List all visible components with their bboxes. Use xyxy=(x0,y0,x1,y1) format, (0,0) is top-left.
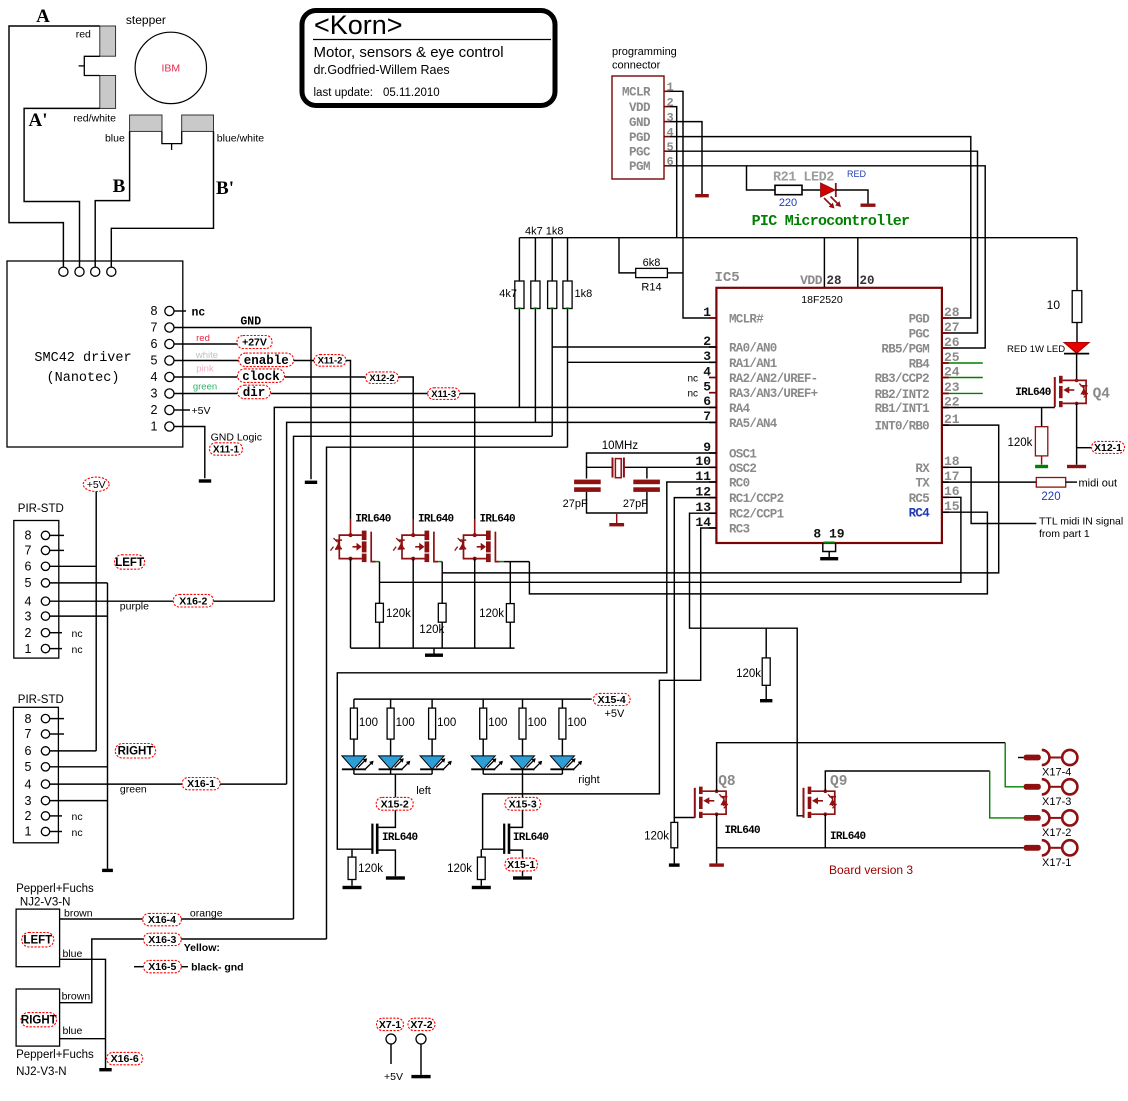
svg-text:from part 1: from part 1 xyxy=(1039,528,1090,540)
LED D3 xyxy=(420,739,452,774)
wire green stub xyxy=(942,392,949,394)
svg-text:05.11.2010: 05.11.2010 xyxy=(383,87,440,99)
svg-text:B': B' xyxy=(216,178,234,199)
resistor R 120k Q5 gate xyxy=(376,603,384,622)
svg-text:PGC: PGC xyxy=(629,146,651,160)
wire left group to X15-2 xyxy=(394,774,396,797)
wire pir1 pin8 stub xyxy=(50,534,64,536)
ground xyxy=(760,699,772,702)
svg-text:220: 220 xyxy=(1041,491,1060,503)
svg-text:RIGHT: RIGHT xyxy=(21,1015,57,1027)
svg-text:dr.Godfried-Willem Raes: dr.Godfried-Willem Raes xyxy=(314,63,450,77)
resistor pullup 4 (1k8) xyxy=(563,281,572,309)
wire RIGHT brown to X16-3 xyxy=(60,939,144,1003)
svg-text:RED: RED xyxy=(847,169,867,179)
wire coil A' to driver (phase A') xyxy=(24,108,100,267)
svg-text:nc: nc xyxy=(687,389,698,400)
svg-text:RIGHT: RIGHT xyxy=(118,746,154,758)
wire LEFT blue to ground xyxy=(60,959,106,1068)
svg-text:PGC: PGC xyxy=(909,328,931,342)
wire Q8 drain to X17-3 xyxy=(717,743,1006,792)
wire pir1 pin5 to gnd rail xyxy=(50,582,108,584)
svg-text:green: green xyxy=(120,784,147,796)
wire X16-2 purple net to RA4 xyxy=(274,407,716,601)
sensor RIGHT box xyxy=(16,989,60,1046)
svg-text:VDD: VDD xyxy=(629,101,651,115)
wire green stub xyxy=(942,377,949,379)
wire X15-2 to Q10 drain xyxy=(378,810,396,827)
title block xyxy=(302,10,555,106)
wire X15-3 to Q11 drain xyxy=(510,810,523,827)
svg-text:X16-3: X16-3 xyxy=(148,934,176,946)
svg-text:7: 7 xyxy=(151,321,158,335)
svg-text:27pF: 27pF xyxy=(563,498,588,510)
svg-text:20: 20 xyxy=(860,274,875,288)
svg-text:nc: nc xyxy=(72,827,83,839)
svg-text:+5V: +5V xyxy=(384,1071,403,1083)
resistor R 120k Q9 gate xyxy=(762,658,770,685)
svg-text:RED 1W LED: RED 1W LED xyxy=(1007,344,1065,355)
wire Q6 gate down xyxy=(441,562,443,573)
resistor R 120k Q8 gate xyxy=(671,822,678,847)
wire Q11 pulldown to ground xyxy=(480,880,482,886)
svg-text:IRL640: IRL640 xyxy=(479,514,515,526)
wire RC1 pin12 to Q8 gate xyxy=(674,498,716,818)
svg-text:X17-4: X17-4 xyxy=(1042,767,1071,779)
wire pir2 pin6 to +5V xyxy=(50,750,96,752)
wire pullup 3 stub xyxy=(551,238,553,281)
wire rail to resistor xyxy=(390,699,392,708)
wire left LED group bottom rail xyxy=(354,773,432,775)
svg-text:SMC42 driver: SMC42 driver xyxy=(34,351,131,366)
LED D1 xyxy=(342,739,374,774)
svg-text:IRL640: IRL640 xyxy=(830,831,866,843)
svg-text:1k8: 1k8 xyxy=(575,288,593,300)
svg-text:2: 2 xyxy=(667,96,674,110)
connector label X7-2 xyxy=(408,1018,435,1031)
svg-text:RC1/CCP2: RC1/CCP2 xyxy=(729,492,784,506)
svg-text:IRL640: IRL640 xyxy=(1015,387,1051,399)
svg-text:100: 100 xyxy=(528,717,547,729)
svg-text:4: 4 xyxy=(703,364,711,379)
svg-text:enable: enable xyxy=(244,354,289,368)
svg-text:last update:: last update: xyxy=(314,87,373,99)
LED D4 xyxy=(471,739,503,774)
resistor pullup 2 () xyxy=(531,281,540,309)
ground xyxy=(709,863,724,866)
transistor Q7 IRL640 xyxy=(455,519,504,562)
wire Q10 gate pulldown tap xyxy=(351,849,353,857)
driver motor pins xyxy=(59,267,116,276)
wire Q6 gate resistor to rail xyxy=(441,622,443,648)
svg-text:RB2/INT2: RB2/INT2 xyxy=(875,388,930,402)
wire cap2 tap xyxy=(646,467,648,478)
connector label X16-6 xyxy=(107,1052,143,1065)
resistor R21 220 xyxy=(775,185,802,194)
svg-text:red: red xyxy=(196,333,210,344)
svg-text:orange: orange xyxy=(190,908,223,920)
svg-text:3: 3 xyxy=(151,387,158,401)
SMC42 driver box xyxy=(7,261,183,447)
resistor R 220 midi xyxy=(1036,478,1065,488)
svg-text:IRL640: IRL640 xyxy=(382,832,418,844)
+5V rail xyxy=(519,237,1077,239)
programming connector J1 xyxy=(612,76,674,179)
svg-text:8: 8 xyxy=(25,712,32,726)
svg-text:1: 1 xyxy=(667,81,674,95)
resistor pullup 3 () xyxy=(548,281,557,309)
svg-text:OSC1: OSC1 xyxy=(729,448,756,462)
ground xyxy=(1035,465,1048,468)
wire VDD pin28top xyxy=(823,238,825,288)
wire pir1 pin2 stub xyxy=(50,632,62,634)
wire RC2 pin13 to Q9 gate xyxy=(690,513,804,816)
svg-text:IRL640: IRL640 xyxy=(418,514,454,526)
wire R21 to LED2 xyxy=(802,189,821,191)
wire Q9 source down xyxy=(824,814,826,848)
wire R10 to LED xyxy=(1076,323,1078,343)
wire driver GND pin7 to ground xyxy=(174,328,311,480)
wire pin2 +5V stub xyxy=(174,409,190,411)
svg-text:GND: GND xyxy=(240,316,261,329)
wire X16-1 label to net xyxy=(220,783,287,785)
capacitor C2 27pF xyxy=(633,480,660,492)
svg-text:10MHz: 10MHz xyxy=(602,440,639,452)
ground xyxy=(305,481,317,484)
wire TX pin17 to R220 xyxy=(942,481,1036,483)
wire caps to ground rail xyxy=(587,492,647,513)
wire Q6 gate pulldown xyxy=(441,573,443,603)
svg-text:LEFT: LEFT xyxy=(23,935,52,947)
sensor LEFT box xyxy=(16,909,60,967)
svg-text:X17-1: X17-1 xyxy=(1042,857,1071,869)
wire enable to X11-2 xyxy=(294,360,314,362)
resistor R 120k Q11 gate xyxy=(477,857,485,879)
wire Q7 gate jog xyxy=(504,561,530,563)
wire RX pin18 from TTL midi in xyxy=(942,467,1036,523)
capacitor C1 27pF xyxy=(574,480,601,492)
svg-text:R14: R14 xyxy=(641,282,661,294)
svg-text:4k7: 4k7 xyxy=(499,288,517,300)
svg-text:blue: blue xyxy=(63,1025,83,1037)
wire right group to X15-3 xyxy=(522,774,524,797)
wire rail to resistor xyxy=(522,699,524,708)
svg-text:TX: TX xyxy=(915,477,930,491)
svg-text:4k7 1k8: 4k7 1k8 xyxy=(525,226,564,238)
connector label X16-5 xyxy=(144,960,182,973)
svg-text:28: 28 xyxy=(944,305,960,320)
transistor Q6 IRL640 xyxy=(393,519,442,562)
connector label +5V xyxy=(83,477,109,491)
svg-text:4: 4 xyxy=(667,126,674,140)
wire X7-1 to +5V xyxy=(390,1044,392,1064)
wire RA0 pin2 xyxy=(552,346,716,348)
svg-text:blue/white: blue/white xyxy=(217,133,264,145)
wire Q8 source down xyxy=(716,814,718,863)
connector X7-1 pin xyxy=(386,1034,396,1044)
svg-text:X15-1: X15-1 xyxy=(507,859,535,871)
svg-text:brown: brown xyxy=(64,908,93,920)
coil B right winding xyxy=(182,115,214,131)
svg-text:6: 6 xyxy=(25,560,32,574)
svg-text:red/white: red/white xyxy=(73,113,116,125)
svg-text:X15-3: X15-3 xyxy=(509,798,537,810)
svg-text:120k: 120k xyxy=(479,608,504,620)
wire rail to resistor xyxy=(431,699,433,708)
svg-text:6: 6 xyxy=(151,337,158,351)
wire Q9 pulldown to ground xyxy=(765,685,767,699)
svg-text:PGD: PGD xyxy=(629,131,651,145)
svg-text:X11-1: X11-1 xyxy=(213,444,240,455)
svg-text:clock: clock xyxy=(242,370,280,384)
ground xyxy=(425,654,443,657)
coil A upper winding xyxy=(100,26,116,56)
svg-text:nc: nc xyxy=(72,628,83,640)
connector label X15-1 xyxy=(505,858,538,871)
svg-text:NJ2-V3-N: NJ2-V3-N xyxy=(20,897,70,909)
svg-text:Q4: Q4 xyxy=(1093,387,1111,403)
PIR RIGHT pins xyxy=(25,712,50,839)
connector X17-3 xyxy=(1024,779,1078,808)
svg-text:5: 5 xyxy=(25,576,32,590)
svg-text:120k: 120k xyxy=(419,624,444,636)
wire green to X17-3 xyxy=(1005,743,1023,787)
svg-text:<Korn>: <Korn> xyxy=(314,10,403,40)
wire Q10 source to ground xyxy=(378,850,396,876)
wire MOSFET source ground rail xyxy=(351,647,515,649)
svg-text:IRL640: IRL640 xyxy=(355,514,391,526)
svg-text:Motor, sensors & eye control: Motor, sensors & eye control xyxy=(314,44,504,61)
svg-text:LEFT: LEFT xyxy=(115,557,144,569)
wire Q5 source to ground rail xyxy=(350,559,352,649)
svg-text:RA1/AN1: RA1/AN1 xyxy=(729,357,777,371)
svg-text:white: white xyxy=(195,350,218,361)
svg-text:RA3/AN3/UREF+: RA3/AN3/UREF+ xyxy=(729,387,818,401)
svg-text:R21 LED2: R21 LED2 xyxy=(773,171,834,186)
wire +5V LED rail xyxy=(354,698,592,700)
LED2 xyxy=(821,183,841,209)
resistor R14 6k8 xyxy=(636,268,668,277)
svg-text:X11-3: X11-3 xyxy=(431,389,456,400)
svg-text:220: 220 xyxy=(779,197,797,209)
wire R14 branch xyxy=(619,238,636,273)
svg-text:6: 6 xyxy=(25,744,32,758)
PIC right pin stubs and labels xyxy=(875,305,960,521)
coil A lower winding xyxy=(100,76,116,109)
svg-text:GND Logic: GND Logic xyxy=(211,432,262,444)
ground xyxy=(99,1068,111,1071)
wire PIC ground pins 8,19 xyxy=(824,542,835,544)
wire Q7 feedback to RC4 pin15 xyxy=(529,512,987,594)
svg-text:+5V: +5V xyxy=(87,479,106,491)
svg-text:RA5/AN4: RA5/AN4 xyxy=(729,417,778,431)
svg-text:VDD: VDD xyxy=(800,273,823,288)
svg-text:3: 3 xyxy=(667,111,674,125)
wire pulldown to green ground xyxy=(1041,456,1043,465)
svg-text:GND: GND xyxy=(629,116,651,130)
transistor Q8 IRL640 xyxy=(695,787,728,818)
wire pin6 to +27V xyxy=(174,343,237,345)
wire crystal left xyxy=(587,466,613,468)
resistor R 100 LED3 xyxy=(429,708,436,739)
ground xyxy=(343,886,362,889)
wire pin8 nc stub xyxy=(174,310,186,312)
svg-text:RA2/AN2/UREF-: RA2/AN2/UREF- xyxy=(729,372,817,386)
svg-text:INT0/RB0: INT0/RB0 xyxy=(875,420,930,434)
connector label X15-2 xyxy=(376,797,413,810)
connector label X16-4 xyxy=(143,913,182,926)
svg-text:RC5: RC5 xyxy=(909,492,930,506)
connector X17-2 xyxy=(1024,810,1078,839)
svg-text:120k: 120k xyxy=(358,863,383,875)
coil A center tap notch xyxy=(84,56,100,75)
svg-text:nc: nc xyxy=(687,374,698,385)
svg-text:brown: brown xyxy=(62,991,91,1003)
svg-text:left: left xyxy=(416,785,431,797)
wire RC0 pin11 to left-LED MOSFET gate xyxy=(337,482,716,849)
wire pir1 pin1 stub xyxy=(50,648,62,650)
svg-text:Yellow:: Yellow: xyxy=(184,942,220,954)
wire X17-1 line xyxy=(717,847,1024,849)
svg-text:blue: blue xyxy=(105,133,125,145)
wire green stub xyxy=(942,362,949,364)
wire X11-3 to Q7 gate xyxy=(460,394,475,520)
connector label X11-3 xyxy=(428,388,460,400)
wire pullup 1 stub xyxy=(518,238,520,281)
svg-text:120k: 120k xyxy=(736,668,761,680)
svg-text:8: 8 xyxy=(25,529,32,543)
svg-text:1: 1 xyxy=(25,825,32,839)
wire +5V down to PIR pin6 xyxy=(95,492,97,751)
svg-text:X7-1: X7-1 xyxy=(379,1019,401,1031)
resistor R 100 LED2 xyxy=(387,708,394,739)
wire pir1 pin6 to +5V xyxy=(50,565,96,567)
connector label enable xyxy=(239,353,294,368)
svg-text:6: 6 xyxy=(667,155,674,169)
resistor R 120k Q6 gate xyxy=(438,603,446,622)
wire pir2 pin5 to gnd xyxy=(50,766,108,768)
svg-text:4: 4 xyxy=(25,594,32,608)
connector label X7-1 xyxy=(377,1018,404,1031)
wire X11-2 to Q5 gate xyxy=(346,361,351,520)
connector label LEFT xyxy=(115,555,145,569)
svg-text:28: 28 xyxy=(827,274,842,288)
resistor R 100 LED4 xyxy=(480,708,487,739)
svg-text:IC5: IC5 xyxy=(715,270,740,286)
wire +5V rail to R 10 xyxy=(1076,238,1078,291)
svg-text:5: 5 xyxy=(151,354,158,368)
wire Q5 gate resistor to rail xyxy=(379,622,381,648)
wire Q7 gate resistor to rail xyxy=(509,622,511,648)
svg-text:+27V: +27V xyxy=(242,337,267,349)
svg-text:PIR-STD: PIR-STD xyxy=(18,503,64,515)
wire crystal ground stem xyxy=(616,513,618,523)
svg-text:100: 100 xyxy=(396,717,415,729)
svg-text:RC0: RC0 xyxy=(729,477,750,491)
wire pir1 pin7 stub xyxy=(50,549,64,551)
svg-text:red: red xyxy=(76,29,91,41)
transistor Q11 IRL640 xyxy=(504,824,509,854)
wire OSC1 pin9 xyxy=(587,453,717,479)
PIR LEFT pins xyxy=(25,529,50,656)
svg-text:purple: purple xyxy=(120,601,149,613)
connector label X16-2 xyxy=(173,594,213,607)
wire RIGHT blue to ground xyxy=(60,1038,106,1040)
LED D5 xyxy=(511,739,543,774)
resistor R 120k Q7 gate xyxy=(506,604,514,623)
wire prog pin5 PGC to PIC pin27 xyxy=(670,151,978,333)
wire pullup 4 stub xyxy=(567,238,569,281)
driver control pins 8..1 xyxy=(151,304,174,434)
wire rail to resistor xyxy=(353,699,355,708)
svg-text:7: 7 xyxy=(25,727,32,741)
wire pir2 pin3 to gnd xyxy=(50,800,108,802)
wire pin4 clock xyxy=(174,376,237,378)
svg-text:26: 26 xyxy=(944,335,960,350)
svg-text:X17-3: X17-3 xyxy=(1042,796,1071,808)
svg-text:Pepperl+Fuchs: Pepperl+Fuchs xyxy=(16,1049,94,1061)
diode RED 1W LED xyxy=(1064,343,1089,354)
resistor R 120k Q10 gate xyxy=(348,857,356,879)
ground xyxy=(695,194,709,197)
wire pullup2 to RA5 line xyxy=(534,309,536,423)
svg-text:+5V: +5V xyxy=(192,405,211,417)
wire Q5 feedback to RC5 pin16 xyxy=(380,497,961,582)
wire pullup3 to RA0 line xyxy=(551,309,553,437)
svg-text:7: 7 xyxy=(25,544,32,558)
svg-text:100: 100 xyxy=(567,717,586,729)
wire Q11 source to ground xyxy=(510,850,523,876)
svg-text:27pF: 27pF xyxy=(623,498,648,510)
connector label RIGHT xyxy=(115,744,155,759)
wire LED to Q4 drain xyxy=(1076,354,1078,381)
wire pir2 pin7 stub xyxy=(50,733,64,735)
wire Q7 gate pulldown xyxy=(509,562,511,604)
wire X16-5 stub right xyxy=(181,966,188,968)
resistor R 100 LED5 xyxy=(519,708,526,739)
wire PGM to R21 xyxy=(747,166,776,190)
wire pir2 pin2 stub xyxy=(50,815,62,817)
svg-text:2: 2 xyxy=(25,626,32,640)
wire prog pin2 VDD to +5V rail xyxy=(670,107,677,238)
svg-text:green: green xyxy=(193,381,217,392)
wire LEFT brown to X16-4 xyxy=(60,918,143,920)
svg-text:X16-5: X16-5 xyxy=(148,961,176,973)
svg-text:IRL640: IRL640 xyxy=(513,832,549,844)
svg-text:black- gnd: black- gnd xyxy=(191,962,244,974)
wire pin3 dir xyxy=(174,393,237,395)
wire clock to X12-2 xyxy=(285,376,366,378)
wire Q7 source to ground rail xyxy=(474,559,476,649)
crystal X1 10MHz xyxy=(613,458,624,478)
wire Q11 gate pulldown tap xyxy=(480,849,482,857)
svg-text:NJ2-V3-N: NJ2-V3-N xyxy=(16,1066,66,1078)
svg-text:Q9: Q9 xyxy=(830,774,847,790)
wire Q6 source to ground rail xyxy=(412,559,414,649)
svg-text:programming: programming xyxy=(612,46,677,58)
svg-text:X12-1: X12-1 xyxy=(1094,442,1122,454)
svg-text:1: 1 xyxy=(25,642,32,656)
svg-text:X16-4: X16-4 xyxy=(148,914,176,926)
wire pullup1 to RA4 line xyxy=(518,309,520,408)
wire R14 to MCLR xyxy=(667,272,683,274)
connector label X16-5 xyxy=(134,966,144,968)
svg-text:nc: nc xyxy=(192,307,206,320)
svg-text:RB1/INT1: RB1/INT1 xyxy=(875,402,930,416)
svg-text:MCLR#: MCLR# xyxy=(729,313,764,327)
svg-text:1: 1 xyxy=(151,420,158,434)
ground xyxy=(669,863,680,866)
